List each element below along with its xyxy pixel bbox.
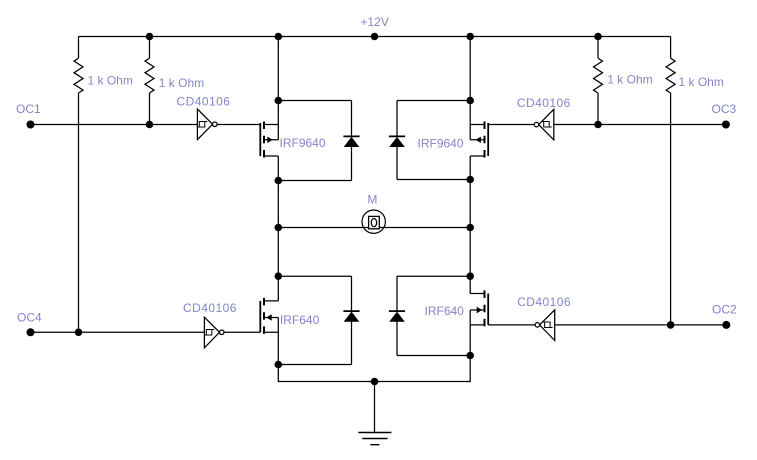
junction Q1 top <box>275 97 283 105</box>
junction rail/R3 <box>594 33 602 41</box>
resistor R3 <box>594 37 603 125</box>
junction R2/OC1 <box>146 121 154 129</box>
svg-text:OC1: OC1 <box>16 102 41 116</box>
svg-text:CD40106: CD40106 <box>517 295 571 309</box>
transistor Q1 IRF9640 <box>260 101 278 181</box>
junction Q2 bottom <box>466 176 474 184</box>
wire Q1 top to D1 <box>278 100 351 102</box>
wire Q1 to motor node left <box>277 181 279 277</box>
junction rail/Q1 leg <box>275 33 283 41</box>
svg-text:1 k Ohm: 1 k Ohm <box>607 72 652 86</box>
diode D4 <box>389 276 405 355</box>
wire D3 to Q3 bottom <box>278 364 351 366</box>
terminal OC4 <box>27 328 35 336</box>
svg-text:CD40106: CD40106 <box>183 301 237 315</box>
svg-text:IRF640: IRF640 <box>425 304 465 318</box>
svg-text:IRF640: IRF640 <box>280 313 320 327</box>
svg-text:1 k Ohm: 1 k Ohm <box>679 75 724 89</box>
wire D4 to Q4 bottom <box>397 355 470 357</box>
wire +12V power rail <box>79 36 671 38</box>
junction R3/OC3 <box>594 121 602 129</box>
wire Q3 top to D3 <box>278 275 351 277</box>
wire OC1 to U1 input <box>31 124 198 126</box>
svg-text:M: M <box>367 192 377 206</box>
wire U4 output to Q4 gate <box>488 324 535 326</box>
motor M1 <box>362 210 385 233</box>
wire U1 output to Q1 gate <box>217 124 260 126</box>
transistor Q2 IRF9640 <box>470 101 488 180</box>
diode D1 <box>343 101 359 181</box>
resistor R1 <box>74 37 83 333</box>
wire motor row <box>278 227 470 229</box>
resistor R4 <box>666 37 675 325</box>
terminal OC2 <box>722 321 730 329</box>
inverter U1 CD40106 top-left <box>197 109 217 140</box>
junction rail/Q2 leg <box>466 33 474 41</box>
inverter U2 CD40106 top-right <box>534 109 554 140</box>
junction ground node <box>371 378 379 386</box>
transistor Q4 IRF640 <box>470 276 488 355</box>
junction R1/OC4 <box>75 329 83 337</box>
wire U2 input to OC3 <box>554 124 726 126</box>
junction motor left <box>275 224 283 232</box>
svg-text:CD40106: CD40106 <box>177 94 231 108</box>
wire ground stem <box>374 382 376 433</box>
junction Q2 top <box>466 97 474 105</box>
junction R4/OC2 <box>667 321 675 329</box>
inverter U3 CD40106 bottom-left <box>204 317 224 348</box>
wire +12V rail to Q1 <box>277 37 279 101</box>
wire OC4 to U3 input <box>31 331 205 333</box>
svg-text:IRF9640: IRF9640 <box>280 136 326 150</box>
resistor R2 <box>145 37 154 125</box>
wire U2 output to Q2 gate <box>488 124 534 126</box>
junction Q3 bottom <box>275 361 283 369</box>
wire Q4 to ground rail <box>375 356 471 382</box>
svg-text:CD40106: CD40106 <box>517 96 571 110</box>
wire U3 output to Q3 gate <box>224 331 260 333</box>
diode D2 <box>389 101 405 180</box>
junction Q4 top <box>466 272 474 280</box>
junction Q4 bottom <box>466 352 474 360</box>
svg-text:IRF9640: IRF9640 <box>418 137 464 151</box>
svg-text:+12V: +12V <box>361 15 389 29</box>
junction Q3 top <box>275 272 283 280</box>
diode D3 <box>343 276 359 364</box>
transistor Q3 IRF640 <box>260 276 278 364</box>
svg-text:1 k Ohm: 1 k Ohm <box>88 73 133 87</box>
junction motor right <box>466 224 474 232</box>
svg-text:1 k Ohm: 1 k Ohm <box>159 76 204 90</box>
node +12V <box>371 33 379 41</box>
terminal OC1 <box>27 121 35 129</box>
inverter U4 CD40106 bottom-right <box>535 310 555 341</box>
wire Q2 to motor node right <box>469 180 471 277</box>
wire Q4 top to D4 <box>397 275 470 277</box>
terminal OC3 <box>722 121 730 129</box>
wire +12V rail to Q2 <box>469 37 471 101</box>
svg-text:OC3: OC3 <box>712 102 737 116</box>
svg-text:OC4: OC4 <box>17 311 42 325</box>
wire D1 to Q1 bottom <box>278 180 351 182</box>
wire U4 input to OC2 <box>555 324 727 326</box>
svg-text:OC2: OC2 <box>712 303 737 317</box>
junction Q1 bottom <box>275 177 283 185</box>
ground symbol <box>358 433 391 445</box>
junction rail/R2 <box>146 33 154 41</box>
wire Q2 top to D2 <box>397 100 470 102</box>
wire Q3 to ground rail <box>278 365 374 382</box>
wire D2 to Q2 bottom <box>397 179 470 181</box>
